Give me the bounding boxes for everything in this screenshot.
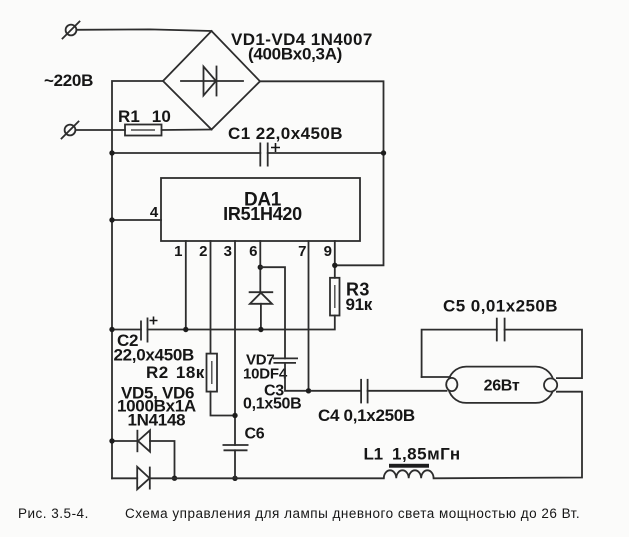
svg-text:C6: C6 — [245, 426, 265, 443]
wire terminal X1 to bridge top — [77, 29, 212, 31]
svg-text:L1: L1 — [364, 445, 383, 464]
wire left rail : bridge left vertex down left side — [112, 81, 163, 478]
capacitor C5 with loop wires — [422, 297, 582, 379]
diode VD5 — [112, 384, 196, 453]
svg-text:(400Вx0,3А): (400Вx0,3А) — [248, 45, 342, 64]
junction VD7 on rail — [258, 327, 263, 332]
wire bottom rail right part and right rail lower — [434, 392, 582, 479]
svg-text:~220В: ~220В — [44, 71, 93, 90]
pin 9 wire — [334, 241, 336, 278]
junction pin7 / C3 / C4 — [306, 388, 311, 393]
lamp EL1 26W — [446, 367, 557, 403]
wire terminal X2 to R1 — [76, 129, 126, 131]
junction VD5 row left rail — [109, 438, 114, 443]
wire right loop : bridge right vertex to pin9 junction — [260, 81, 384, 265]
pin 6 wire — [259, 241, 261, 292]
wire pin6 branch to C3 column — [260, 267, 285, 358]
svg-text:IR51H420: IR51H420 — [223, 204, 302, 224]
terminal X1 top input — [63, 22, 80, 39]
svg-text:1,85мГн: 1,85мГн — [392, 445, 461, 464]
svg-text:C4 0,1x250В: C4 0,1x250В — [318, 406, 415, 425]
diode VD7 — [243, 292, 288, 382]
capacitor C6 — [223, 426, 265, 479]
capacitor C4 — [311, 379, 447, 425]
junction C2 row left rail — [109, 327, 114, 332]
svg-text:0,1x50В: 0,1x50В — [243, 396, 301, 413]
pin 3 wire — [234, 241, 236, 445]
resistor R2 — [146, 354, 217, 392]
pin 2 wire — [210, 241, 212, 354]
svg-text:C5 0,01x250В: C5 0,01x250В — [443, 297, 558, 316]
wire VD5 to mid riser — [150, 441, 175, 478]
junction pin4 on left rail — [109, 217, 114, 222]
inductor L1 — [364, 445, 461, 479]
svg-text:R2 18к: R2 18к — [146, 363, 205, 382]
pin 7 wire — [308, 241, 310, 391]
svg-text:3: 3 — [224, 243, 232, 260]
svg-text:22,0x450В: 22,0x450В — [114, 346, 195, 365]
wire R1 to bridge bottom vertex — [162, 129, 212, 132]
svg-text:1N4148: 1N4148 — [128, 411, 186, 430]
capacitor C1 — [112, 124, 384, 167]
diode VD6 — [112, 467, 150, 490]
pin 1 wire — [185, 241, 187, 330]
junction R2-pin3 — [232, 413, 237, 418]
terminal X2 bottom input — [62, 122, 79, 139]
svg-text:1: 1 — [174, 243, 182, 260]
svg-text:26Вт: 26Вт — [484, 378, 520, 395]
wire R2 bottom to pin3 column — [211, 392, 236, 416]
IC DA1 — [161, 178, 360, 241]
resistor R3 — [330, 278, 373, 316]
svg-text:Схема управления для лампы дне: Схема управления для лампы дневного свет… — [125, 506, 580, 521]
bridge rectifier VD1-VD4 — [163, 30, 373, 130]
wire C2 row rail to R3 bottom — [148, 316, 335, 330]
junction C1 right — [381, 150, 386, 155]
svg-text:9: 9 — [324, 243, 332, 260]
junction pin1 on rail — [183, 327, 188, 332]
resistor R1 — [118, 107, 171, 136]
svg-text:C1 22,0x450В: C1 22,0x450В — [228, 124, 343, 143]
svg-text:R1 10: R1 10 — [118, 107, 171, 126]
capacitor C3 — [243, 358, 309, 412]
svg-text:10DF4: 10DF4 — [243, 366, 288, 383]
junction pin6 branch — [258, 265, 263, 270]
svg-text:2: 2 — [199, 243, 207, 260]
junction C1 left — [109, 150, 114, 155]
junction pin9 / right loop — [332, 263, 337, 268]
svg-text:4: 4 — [150, 204, 159, 221]
pin 4 wire — [112, 219, 161, 221]
junction C6 bottom — [232, 476, 237, 481]
svg-text:Рис. 3.5-4.: Рис. 3.5-4. — [18, 506, 89, 521]
svg-text:7: 7 — [298, 243, 306, 260]
wire bottom rail left part — [150, 477, 384, 479]
junction riser bottom — [172, 476, 177, 481]
svg-text:91к: 91к — [346, 295, 373, 314]
capacitor C2 — [112, 317, 194, 365]
svg-text:6: 6 — [249, 243, 257, 260]
